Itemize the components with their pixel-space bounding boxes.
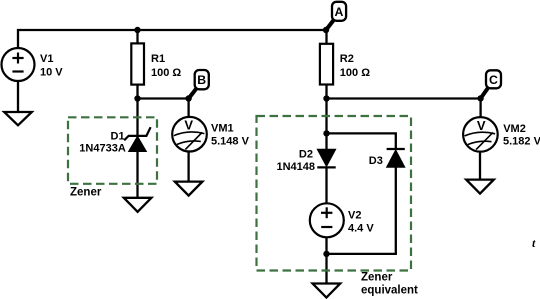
- zener diode D1: [124, 127, 150, 151]
- ground (V1): [4, 112, 32, 125]
- wire VM1 top: [187, 99, 189, 118]
- Zener equivalent caption: [361, 272, 418, 297]
- svg-text:100 Ω: 100 Ω: [340, 67, 370, 79]
- wire R1 top: [136, 30, 138, 44]
- wire R2 bottom: [325, 85, 327, 99]
- zener equivalent annotation box: [257, 116, 412, 271]
- ground (VM2): [466, 180, 494, 194]
- ground (VM1): [175, 182, 203, 196]
- svg-text:1N4148: 1N4148: [277, 161, 316, 173]
- wire top bus: [18, 30, 327, 48]
- svg-text:V: V: [477, 118, 486, 133]
- svg-text:equivalent: equivalent: [361, 285, 418, 297]
- svg-text:V1: V1: [40, 53, 53, 65]
- diode D3: [387, 149, 405, 167]
- svg-text:10 V: 10 V: [40, 66, 63, 78]
- node junction B-row left: [134, 95, 140, 101]
- node junction bottom: [323, 251, 329, 257]
- wire V2 bottom: [325, 237, 327, 283]
- wire V1 to ground: [17, 81, 19, 112]
- wire D2 to V2: [325, 167, 327, 203]
- wire VM1 to ground: [187, 151, 189, 182]
- wire R2 top: [325, 30, 327, 44]
- D2 value label: [277, 149, 316, 173]
- wire zener to ground: [136, 152, 138, 198]
- D1 value label: [79, 131, 126, 155]
- wire R1 bottom: [136, 85, 138, 99]
- svg-text:A: A: [335, 5, 344, 19]
- R1 value label: [151, 53, 181, 79]
- voltmeter VM1: [172, 117, 207, 152]
- V1 value label: [40, 53, 63, 78]
- diode D2: [317, 149, 335, 167]
- VM2 value label: [503, 123, 540, 147]
- svg-text:R1: R1: [151, 53, 165, 65]
- node junction at R1 top: [134, 27, 140, 33]
- wire D3 bottom branch: [327, 167, 396, 254]
- svg-text:VM2: VM2: [503, 123, 526, 135]
- svg-text:100 Ω: 100 Ω: [151, 67, 181, 79]
- node junction C-row left: [323, 95, 329, 101]
- svg-text:V2: V2: [348, 209, 361, 221]
- node junction B: [185, 95, 191, 101]
- wire D2 branch top: [325, 99, 327, 150]
- wire node B horizontal: [138, 97, 190, 99]
- svg-text:D2: D2: [299, 149, 313, 161]
- wire VM2 top: [479, 98, 481, 117]
- node junction D2/D3: [323, 130, 329, 136]
- svg-text:5.148 V: 5.148 V: [211, 135, 250, 147]
- svg-text:D1: D1: [111, 131, 125, 143]
- node A label: [326, 2, 346, 30]
- R2 value label: [340, 53, 370, 79]
- svg-text:Zener: Zener: [70, 187, 102, 199]
- wire D3 top branch: [327, 133, 396, 149]
- voltage source V1: [2, 48, 35, 81]
- svg-text:5.182 V: 5.182 V: [503, 135, 540, 147]
- svg-text:V: V: [184, 118, 193, 133]
- VM1 value label: [211, 123, 250, 148]
- svg-text:Zener: Zener: [361, 272, 393, 284]
- voltage source V2: [310, 203, 344, 237]
- svg-text:B: B: [197, 73, 206, 87]
- wire node C horizontal: [327, 97, 481, 99]
- svg-text:1N4733A: 1N4733A: [79, 143, 126, 155]
- wire VM2 to ground: [479, 151, 481, 180]
- V2 value label: [348, 209, 374, 234]
- svg-text:R2: R2: [340, 53, 354, 65]
- ground (D1): [124, 198, 152, 212]
- resistor R2: [320, 44, 333, 85]
- node junction A: [323, 27, 329, 33]
- ground (V2): [313, 284, 341, 298]
- zener annotation box: [68, 117, 157, 184]
- resistor R1: [131, 43, 144, 84]
- voltmeter VM2: [463, 117, 498, 152]
- node junction C: [477, 95, 483, 101]
- svg-text:4.4 V: 4.4 V: [348, 223, 374, 235]
- wire zener branch top: [136, 99, 138, 137]
- node C label: [481, 70, 501, 98]
- svg-text:D3: D3: [369, 155, 383, 167]
- svg-text:C: C: [489, 73, 498, 87]
- node B label: [189, 70, 209, 99]
- svg-text:VM1: VM1: [211, 123, 234, 135]
